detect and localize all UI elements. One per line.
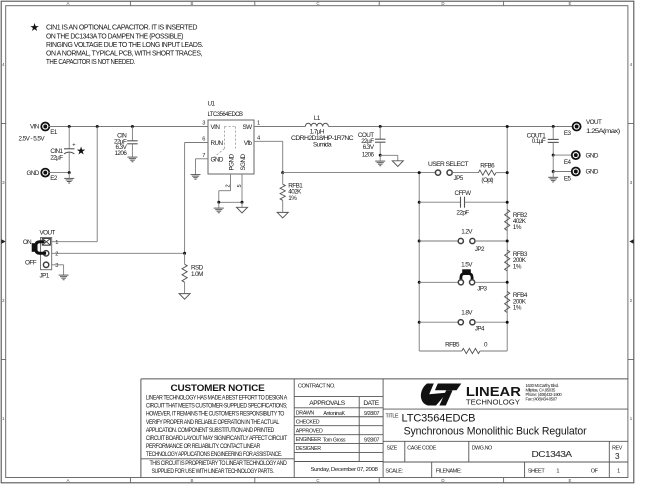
wire VIN rail to JP1 pin 1 xyxy=(52,127,97,242)
svg-text:HOWEVER, IT REMAINS THE CUSTOM: HOWEVER, IT REMAINS THE CUSTOMER’S RESPO… xyxy=(146,411,285,418)
wire COUT gnd to triangle gnd xyxy=(380,154,398,156)
wire JP1 pin 3 to ground xyxy=(52,265,64,270)
ground (input) xyxy=(64,173,74,183)
node RFB6/right vertical xyxy=(506,171,509,174)
svg-text:2: 2 xyxy=(55,252,58,258)
node VIN/CIN1 junction xyxy=(68,125,71,128)
svg-text:1206: 1206 xyxy=(362,151,375,158)
pin 1 (SW) xyxy=(257,121,260,127)
wire JP2 right xyxy=(475,240,507,242)
node CFFW left xyxy=(418,201,421,204)
wire JP3 left xyxy=(419,281,458,283)
capacitor COUT1 0.1uF xyxy=(527,127,559,156)
svg-text:Sumida: Sumida xyxy=(313,141,332,148)
svg-text:L1: L1 xyxy=(314,115,321,122)
ground (RSD) xyxy=(179,294,190,300)
svg-text:TECHNOLOGY APPLICATIONS ENGINE: TECHNOLOGY APPLICATIONS ENGINEERING FOR … xyxy=(146,451,283,458)
node JP4 left xyxy=(418,321,421,324)
wire U1 SGND pin 5 xyxy=(241,174,243,202)
svg-text:22µF: 22µF xyxy=(50,154,63,161)
svg-text:PERFORMANCE OR RELIABILITY. C: PERFORMANCE OR RELIABILITY. CONTACT LINE… xyxy=(146,443,261,450)
svg-text:E5: E5 xyxy=(564,175,572,182)
svg-text:1%: 1% xyxy=(513,305,522,312)
svg-text:B: B xyxy=(191,478,194,483)
svg-text:ON THE DC1343A TO DAMPEN THE: ON THE DC1343A TO DAMPEN THE (POSSIBLE) xyxy=(46,33,183,40)
svg-text:D: D xyxy=(441,1,444,6)
svg-text:A: A xyxy=(67,478,70,483)
svg-text:RFB6: RFB6 xyxy=(480,162,495,169)
svg-text:RINGING VOLTAGE DUE TO THE LON: RINGING VOLTAGE DUE TO THE LONG INPUT LE… xyxy=(46,42,203,49)
wire JP4 right xyxy=(475,321,507,323)
wire ladder bottom left xyxy=(419,350,462,352)
capacitor CFFW 22pF xyxy=(455,190,472,217)
wire JP3 right xyxy=(475,281,508,283)
node VOUT/COUT junction xyxy=(379,125,382,128)
svg-text:B: B xyxy=(191,1,194,6)
svg-text:VIN: VIN xyxy=(211,124,221,131)
resistor RFB4 200K 1% xyxy=(505,292,528,313)
title block xyxy=(141,379,628,478)
svg-text:CAGE CODE: CAGE CODE xyxy=(407,445,436,451)
svg-text:LINEAR: LINEAR xyxy=(466,385,521,399)
svg-text:1: 1 xyxy=(55,240,58,246)
svg-text:RUN: RUN xyxy=(211,140,224,147)
wire ladder bottom right xyxy=(480,350,507,352)
resistor RFB1 402K 1% xyxy=(280,173,303,212)
node PGND/SGND junction xyxy=(217,201,220,204)
ground (PGND) xyxy=(214,202,224,212)
svg-text:Tom Gross: Tom Gross xyxy=(323,438,346,444)
jumper JP4 1.8V xyxy=(458,309,485,332)
inductor L1 1.7uH CDRH2D18/HP-1R7NC Sumida xyxy=(291,115,354,149)
capacitor COUT 22uF 6.3V 1206 xyxy=(358,127,386,159)
svg-text:JP1: JP1 xyxy=(40,273,50,280)
svg-text:PGND: PGND xyxy=(229,154,236,171)
svg-text:APPLICATION. COMPONENT SUBSTI: APPLICATION. COMPONENT SUBSTITUTION AND … xyxy=(146,427,275,434)
pin 2 (PGND) xyxy=(225,185,231,188)
svg-text:2.5V - 5.5V: 2.5V - 5.5V xyxy=(19,135,46,142)
svg-text:OF: OF xyxy=(591,468,599,474)
svg-text:1%: 1% xyxy=(513,224,522,231)
terminal E2 GND xyxy=(26,169,57,182)
svg-text:SGND: SGND xyxy=(240,154,247,171)
svg-text:APPROVED: APPROVED xyxy=(296,428,323,434)
pin 6 (RUN) xyxy=(202,137,205,143)
svg-text:E4: E4 xyxy=(564,159,572,166)
svg-text:CHECKED: CHECKED xyxy=(296,419,320,425)
capacitor CIN1 22uF (optional) xyxy=(50,127,86,173)
svg-text:1.0M: 1.0M xyxy=(191,271,203,278)
wire SW rail U1 pin1 to L1 xyxy=(254,126,305,128)
svg-text:TECHNOLOGY: TECHNOLOGY xyxy=(466,398,520,407)
svg-text:DWG.NO: DWG.NO xyxy=(472,445,492,451)
jumper JP3 1.5V with shunt installed xyxy=(458,261,487,292)
ground (output) xyxy=(548,172,558,182)
svg-text:Vfb: Vfb xyxy=(244,140,253,147)
svg-text:TITLE: TITLE xyxy=(386,413,399,419)
svg-text:D: D xyxy=(441,478,444,483)
ground (U1 GND) xyxy=(191,169,201,179)
svg-text:DRAWN: DRAWN xyxy=(296,410,315,416)
svg-text:DESIGNER: DESIGNER xyxy=(296,446,321,452)
node JP2 left xyxy=(418,240,421,243)
svg-text:Synchronous Monolithic Buck Re: Synchronous Monolithic Buck Regulator xyxy=(404,426,587,438)
svg-text:JP4: JP4 xyxy=(475,325,485,332)
svg-text:THE CAPACITOR IS NOT NEEDED.: THE CAPACITOR IS NOT NEEDED. xyxy=(46,59,135,66)
svg-text:1.25A(max): 1.25A(max) xyxy=(586,128,620,135)
svg-text:4: 4 xyxy=(257,136,260,142)
wire feedback rail to ladder xyxy=(283,172,436,174)
svg-text:1%: 1% xyxy=(513,263,522,270)
pin 5 (SGND) xyxy=(237,185,243,188)
capacitor CIN 22uF 6.3V 1206 xyxy=(114,127,138,158)
svg-text:E: E xyxy=(569,478,572,483)
svg-text:OFF: OFF xyxy=(25,259,37,266)
svg-text:E1: E1 xyxy=(50,129,58,136)
svg-text:SW: SW xyxy=(242,124,252,131)
svg-text:9/28/07: 9/28/07 xyxy=(364,438,380,444)
svg-text:6.3V: 6.3V xyxy=(363,144,375,151)
svg-text:1%: 1% xyxy=(288,195,297,202)
wire Vfb pin 4 to feedback rail xyxy=(254,141,283,172)
node E5 junction xyxy=(552,170,555,173)
op-amp U1 LTC3564EDCB buck regulator IC xyxy=(208,101,255,175)
terminal E4 GND xyxy=(564,151,599,166)
svg-text:★: ★ xyxy=(76,145,86,157)
wire CFFW left xyxy=(419,201,460,203)
terminal E5 GND xyxy=(564,168,599,183)
ground (COUT triangle) xyxy=(392,155,403,166)
svg-text:(Opt): (Opt) xyxy=(481,177,493,184)
node COUT ground junction xyxy=(379,154,382,157)
svg-text:9/28/07: 9/28/07 xyxy=(364,411,380,417)
svg-text:SHEET: SHEET xyxy=(528,468,545,474)
wire ladder right vertical xyxy=(506,127,508,352)
svg-text:E: E xyxy=(569,1,572,6)
svg-text:GND: GND xyxy=(586,169,599,176)
svg-text:A: A xyxy=(67,1,70,6)
node JP3 left xyxy=(418,281,421,284)
node VIN/JP1 junction xyxy=(96,125,99,128)
svg-text:VOUT: VOUT xyxy=(586,119,602,126)
node VOUT/ladder junction xyxy=(506,125,509,128)
node CFFW right xyxy=(506,201,509,204)
node VIN/CIN junction xyxy=(131,125,134,128)
svg-text:USER SELECT: USER SELECT xyxy=(428,161,469,168)
svg-text:DATE: DATE xyxy=(363,400,379,407)
svg-text:U1: U1 xyxy=(208,101,216,108)
wire VIN rail E1 to U1 pin3 xyxy=(49,126,208,128)
pin 3 (VIN) xyxy=(202,121,205,127)
pin 7 (GND) xyxy=(202,153,205,159)
jumper JP2 1.2V xyxy=(458,229,485,254)
terminal E3 VOUT xyxy=(564,119,620,137)
svg-text:C: C xyxy=(316,478,319,483)
svg-text:Fax: (408)434-0507: Fax: (408)434-0507 xyxy=(526,397,558,402)
jumper JP1 run/stop header xyxy=(23,230,58,280)
svg-text:3: 3 xyxy=(202,121,205,127)
note annotation text xyxy=(46,25,203,66)
resistor RFB2 402K 1% xyxy=(505,210,528,232)
pin 4 (Vfb) xyxy=(257,136,260,142)
svg-text:LTC3564EDCB: LTC3564EDCB xyxy=(208,111,243,118)
node ladder left top xyxy=(418,171,421,174)
svg-text:GND: GND xyxy=(211,157,224,164)
wire RFB6 to right vertical xyxy=(496,172,507,174)
svg-text:REV: REV xyxy=(612,445,623,451)
wire JP4 left xyxy=(419,321,458,323)
svg-text:AntoninaK: AntoninaK xyxy=(323,411,345,417)
wire JP5 to RFB6 xyxy=(452,172,478,174)
jumper JP5 USER SELECT xyxy=(428,161,469,182)
svg-text:C: C xyxy=(316,1,319,6)
svg-text:VOUT: VOUT xyxy=(40,230,56,237)
wire U1 GND pin 7 xyxy=(196,159,209,169)
svg-text:1: 1 xyxy=(257,121,260,127)
resistor RFB3 200K 1% xyxy=(505,250,528,271)
svg-text:SIZE: SIZE xyxy=(387,445,398,451)
ground (COUT earth) xyxy=(375,155,385,165)
svg-text:1: 1 xyxy=(556,468,559,474)
svg-text:3: 3 xyxy=(55,263,58,269)
svg-text:0.1µF: 0.1µF xyxy=(532,138,546,145)
wire RUN pin 6 to JP1 pin 2 / RSD xyxy=(52,143,208,254)
resistor RSD 1.0M xyxy=(182,253,204,293)
svg-text:VIN: VIN xyxy=(30,124,40,131)
note annotation star xyxy=(30,22,40,34)
wire U1 PGND pin 2 xyxy=(219,174,242,202)
svg-text:GND: GND xyxy=(586,152,599,159)
node Vfb/RFB1 junction xyxy=(281,171,284,174)
wire CFFW right xyxy=(465,201,508,203)
svg-text:1.8V: 1.8V xyxy=(461,309,473,316)
node COUT1/E4 junction xyxy=(552,154,555,157)
svg-text:GND: GND xyxy=(26,170,39,177)
svg-text:FILENAME:: FILENAME: xyxy=(436,468,462,474)
terminal E1 VIN xyxy=(19,123,58,143)
svg-text:7: 7 xyxy=(202,153,205,159)
ground (JP1 pin3) xyxy=(59,269,69,279)
svg-text:SCALE:: SCALE: xyxy=(385,468,403,474)
svg-text:6: 6 xyxy=(202,137,205,143)
svg-text:CIN1 IS AN OPTIONAL CAPACITOR.: CIN1 IS AN OPTIONAL CAPACITOR. IT IS INS… xyxy=(46,25,197,32)
wire E2 to ground node xyxy=(49,172,69,174)
svg-text:E2: E2 xyxy=(50,175,58,182)
svg-text:1206: 1206 xyxy=(114,150,127,157)
svg-text:22pF: 22pF xyxy=(456,210,469,217)
node JP3 right xyxy=(506,281,509,284)
svg-text:ENGINEER: ENGINEER xyxy=(296,437,321,443)
svg-text:CONTRACT NO.: CONTRACT NO. xyxy=(298,384,336,390)
svg-text:1: 1 xyxy=(617,468,620,474)
svg-text:Sunday, December 07, 2008: Sunday, December 07, 2008 xyxy=(311,467,378,473)
svg-text:VERIFY PROPER AND RELIABLE OPE: VERIFY PROPER AND RELIABLE OPERATION IN … xyxy=(146,419,280,426)
wire ladder left vertical xyxy=(418,173,420,351)
wire COUT1 gnd segment xyxy=(552,155,554,171)
wire E4 xyxy=(553,154,572,156)
svg-text:JP3: JP3 xyxy=(477,286,487,293)
ground (SGND) xyxy=(237,202,248,213)
svg-text:CUSTOMER NOTICE: CUSTOMER NOTICE xyxy=(171,383,265,393)
svg-text:RFB5: RFB5 xyxy=(445,342,460,349)
wire VOUT rail L1 to E3 xyxy=(328,126,573,128)
node JP4 right xyxy=(506,321,509,324)
svg-text:SUPPLIED FOR USE WITH LINEAR T: SUPPLIED FOR USE WITH LINEAR TECHNOLOGY … xyxy=(152,468,275,475)
svg-text:LTC3564EDCB: LTC3564EDCB xyxy=(402,413,476,425)
svg-text:JP2: JP2 xyxy=(475,246,485,253)
svg-text:★: ★ xyxy=(30,22,40,34)
svg-text:E3: E3 xyxy=(564,130,572,137)
svg-text:ON: ON xyxy=(23,239,32,246)
node JP2 right xyxy=(506,240,509,243)
svg-text:ON A NORMAL, TYPICAL PCB, WITH: ON A NORMAL, TYPICAL PCB, WITH SHORT TRA… xyxy=(46,51,202,58)
ground (RFB1) xyxy=(277,212,288,218)
node SGND junction xyxy=(241,201,244,204)
node VOUT/COUT1 junction xyxy=(552,125,555,128)
svg-text:DC1343A: DC1343A xyxy=(532,450,573,459)
resistor RFB5 0 ohm xyxy=(445,342,488,354)
svg-text:APPROVALS: APPROVALS xyxy=(309,400,345,407)
svg-text:1.5V: 1.5V xyxy=(461,261,473,268)
wire JP2 left xyxy=(419,240,458,242)
svg-text:CIRCUIT THAT MEETS CUSTOMER-SU: CIRCUIT THAT MEETS CUSTOMER-SUPPLIED SPE… xyxy=(146,403,288,410)
ground (CIN) xyxy=(127,151,137,161)
node CIN1/E2 ground junction xyxy=(68,171,71,174)
svg-text:1.2V: 1.2V xyxy=(461,229,473,236)
resistor RFB6 (Opt) xyxy=(478,162,496,184)
node RUN/RSD junction xyxy=(183,252,186,255)
svg-text:LINEAR TECHNOLOGY HAS MADE A B: LINEAR TECHNOLOGY HAS MADE A BEST EFFORT… xyxy=(146,395,288,402)
svg-text:JP5: JP5 xyxy=(454,175,464,182)
svg-text:CIRCUIT BOARD LAYOUT MAY SIGNI: CIRCUIT BOARD LAYOUT MAY SIGNIFICANTLY A… xyxy=(146,435,288,442)
wire E5 xyxy=(553,171,572,173)
svg-text:CFFW: CFFW xyxy=(455,190,472,197)
svg-text:THIS CIRCUIT IS PROPRIETARY TO: THIS CIRCUIT IS PROPRIETARY TO LINEAR TE… xyxy=(150,460,288,467)
